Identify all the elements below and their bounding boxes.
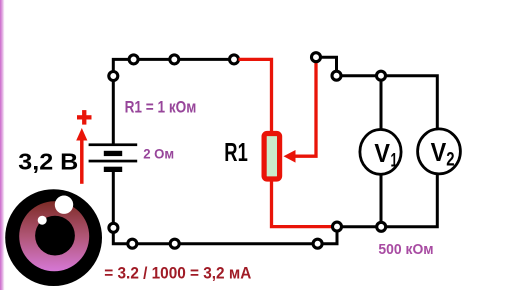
wire W2 (red): top rail to R1 top <box>239 59 272 133</box>
resistor R1 <box>264 134 280 180</box>
svg-text:500 кОм: 500 кОм <box>378 242 433 258</box>
wire: V1 bottom lead <box>380 175 383 227</box>
junction J11 on left bottom rail <box>109 223 118 232</box>
junction J6 (top of wiper branch) <box>312 53 321 62</box>
junction J7 <box>332 71 341 80</box>
wire: V1 top lead <box>380 80 383 129</box>
wire W3 (red): R1 bottom to junction J5 <box>272 179 333 227</box>
svg-text:V: V <box>431 137 447 167</box>
svg-text:3,2 В: 3,2 В <box>18 149 78 175</box>
wire W8: bottom rail to battery negative terminal <box>113 172 313 244</box>
junction J5 (red return meets meter rail) <box>333 222 342 231</box>
svg-text:R1: R1 <box>224 137 248 167</box>
svg-text:1: 1 <box>391 150 398 171</box>
svg-text:2: 2 <box>446 149 454 170</box>
junction J9 (V1 bottom tap) <box>377 222 386 231</box>
wire W6: J9 to J5 <box>342 225 377 228</box>
junction J8 (V1 top tap) <box>377 71 386 80</box>
junction J10 on bottom rail <box>313 239 322 248</box>
logo <box>5 189 102 286</box>
junction J3 on top rail <box>170 55 179 64</box>
junction J4 on top rail <box>230 55 239 64</box>
wire W5: top right rail to V2 top <box>341 76 437 129</box>
svg-text:R1 = 1 кОм: R1 = 1 кОм <box>125 98 197 116</box>
junction J2 on top rail <box>129 55 138 64</box>
voltmeter V1 <box>360 130 401 175</box>
svg-text:V: V <box>374 138 390 168</box>
svg-text:= 3.2 / 1000 = 3,2 мА: = 3.2 / 1000 = 3,2 мА <box>104 263 251 282</box>
wire W7: J5 step down to bottom rail <box>322 231 337 244</box>
junction J1 on left rail <box>109 72 118 81</box>
wire W4: J6 to J7 <box>321 57 337 71</box>
svg-text:2 Ом: 2 Ом <box>143 147 174 163</box>
voltmeter V2 <box>418 129 461 174</box>
junction J13 on bottom rail <box>170 239 179 248</box>
polarity plus sign (red) <box>77 110 92 125</box>
wiper arrow (red) from J6 into R1 <box>284 62 317 163</box>
junction J12 on bottom rail <box>128 239 137 248</box>
wire W1: battery positive terminal up and along top rail <box>113 59 234 145</box>
battery BT1 (3,2 V) <box>89 143 138 172</box>
current direction arrow (red, up) <box>76 128 87 184</box>
wire: V2 bottom lead to junction J9 <box>386 175 438 227</box>
